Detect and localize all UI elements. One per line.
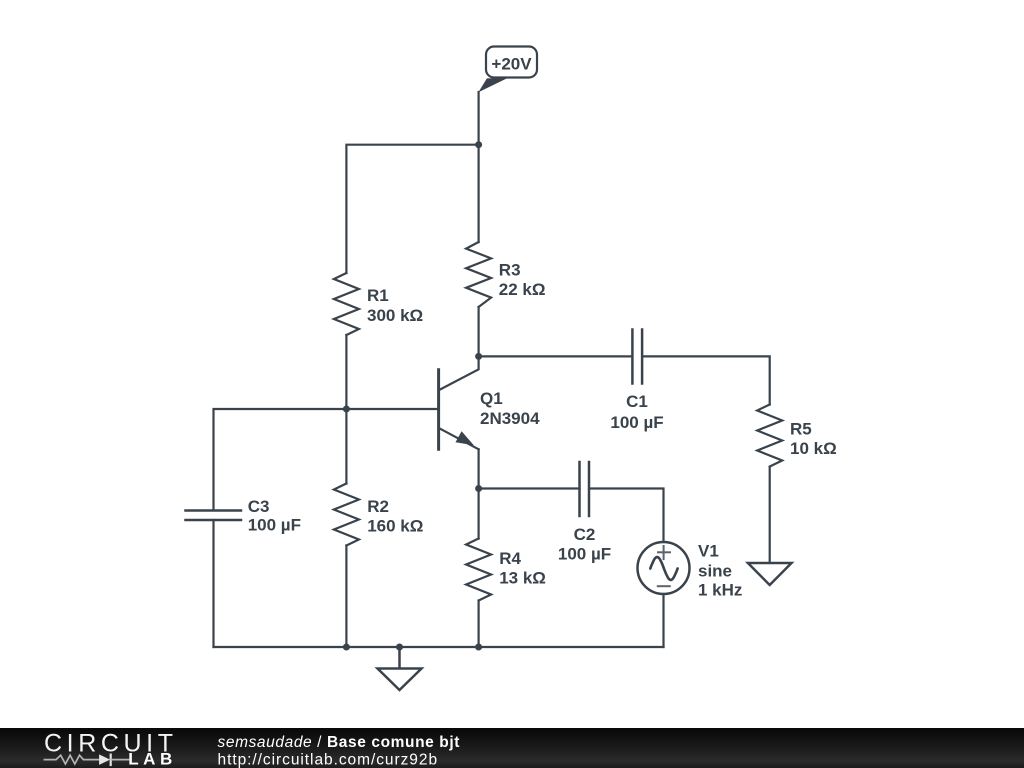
resistor R2 with leads [334,409,359,647]
label C3 100 µF [248,497,301,534]
resistor R4 with leads [466,449,491,647]
resistor R5 [757,405,782,467]
power label +20V [478,47,537,93]
svg-text:LAB: LAB [128,750,177,768]
svg-text:C3: C3 [248,497,270,516]
wire: V1 bottom lead [662,594,664,647]
junction: ground / bottom rail [396,644,403,651]
label V1 sine 1 kHz [698,541,742,599]
wire: R3 upper lead [478,145,480,242]
svg-text:C1: C1 [626,392,648,411]
svg-text:22 kΩ: 22 kΩ [499,280,546,299]
wire: C1 to R5 [642,356,770,404]
svg-text:+20V: +20V [491,54,532,73]
svg-text:100 µF: 100 µF [610,413,663,432]
svg-text:100 µF: 100 µF [248,516,301,535]
wire: base node to C3 branch [214,409,347,510]
ground (below R5) [748,563,792,585]
watermark bar [0,728,1024,768]
svg-text:2N3904: 2N3904 [480,409,540,428]
wire: base wire to transistor [346,408,438,410]
wire: R3 lower lead [478,307,480,356]
wire: collector rail to C1 [479,355,633,357]
svg-text:sine: sine [698,561,732,580]
svg-text:1 kHz: 1 kHz [698,581,742,600]
capacitor C3 [186,511,242,521]
capacitor C2 [580,462,590,516]
wire: R1 lower lead [345,335,347,409]
transistor Q1 [439,356,479,449]
svg-text:C2: C2 [574,525,596,544]
svg-text:R5: R5 [790,420,812,439]
wire: C3 lower lead [212,520,214,647]
svg-text:R1: R1 [367,286,389,305]
wire: top rail and R1 upper lead [346,145,478,273]
svg-text:R3: R3 [499,260,521,279]
capacitor C1 [632,330,642,384]
label C2 100 µF [558,525,611,563]
svg-text:R4: R4 [499,549,521,568]
junction: emitter node [475,485,482,492]
svg-text:13 kΩ: 13 kΩ [499,569,546,588]
svg-text:100 µF: 100 µF [558,544,611,563]
source V1 [638,542,690,594]
label Q1 2N3904 [480,389,540,428]
junction: collector node [475,353,482,360]
label R3 22 kΩ [499,260,546,299]
resistor R3 [466,242,491,307]
label R2 160 kΩ [367,497,423,535]
wire: bottom ground rail [214,646,664,648]
svg-text:300 kΩ: 300 kΩ [367,306,423,325]
ground (bottom middle) [378,647,422,690]
junction: top rail / R3 [475,141,482,148]
svg-text:10 kΩ: 10 kΩ [790,439,837,458]
label R4 13 kΩ [499,549,546,588]
svg-text:160 kΩ: 160 kΩ [367,517,423,536]
label R5 10 kΩ [790,420,837,459]
svg-text:Q1: Q1 [480,389,503,408]
junction: base node [343,406,350,413]
svg-text:semsaudade / Base comune bjt: semsaudade / Base comune bjt [218,734,461,751]
wire: emitter rail to C2 [479,487,580,489]
wire: R5 lower lead [769,467,771,563]
resistor R1 [334,273,359,335]
wire: C2 to V1 [589,489,664,543]
svg-text:http://circuitlab.com/curz92b: http://circuitlab.com/curz92b [218,752,439,768]
label C1 100 µF [610,392,663,432]
svg-text:V1: V1 [698,541,719,560]
junction: R4 / bottom rail [475,644,482,651]
svg-text:R2: R2 [367,497,389,516]
wire: supply drop [478,92,480,145]
junction: R2 / bottom rail [343,644,350,651]
label R1 300 kΩ [367,286,423,325]
CircuitLab logo [44,729,178,768]
